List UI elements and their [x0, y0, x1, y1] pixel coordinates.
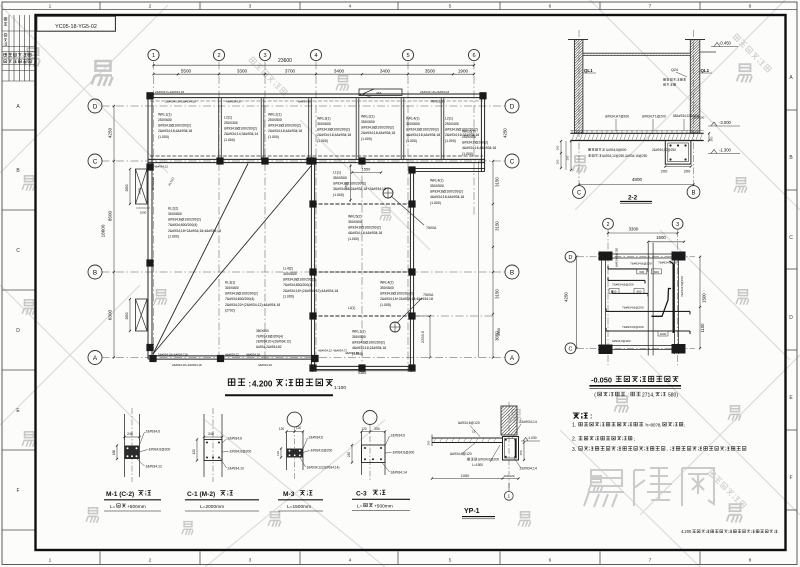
- lintel C-3 wall lines: [362, 432, 386, 476]
- svg-text:7&#934;8@150: 7&#934;8@150: [680, 276, 684, 297]
- wall bottom right block: [311, 366, 413, 369]
- lintel M-3 centerline: [294, 427, 296, 480]
- svg-text:LL4(2): LL4(2): [283, 266, 293, 270]
- lintel M-1 label 2phi6: [139, 430, 160, 447]
- section 2-2 bubble B: [687, 186, 700, 199]
- svg-text:C: C: [510, 158, 515, 165]
- svg-text:4&#934;18;4&#934;18: 4&#934;18;4&#934;18: [430, 195, 464, 199]
- svg-text:(1.000): (1.000): [283, 294, 294, 298]
- svg-text:&#934;2&#934;82: &#934;2&#934;82: [256, 345, 282, 349]
- svg-text:2: 2: [149, 558, 152, 564]
- svg-text:2&#934;18+2&#934;18: 2&#934;18+2&#934;18: [165, 99, 196, 103]
- svg-text:4.200: 4.200: [681, 529, 692, 534]
- svg-text:(1.005): (1.005): [380, 303, 391, 307]
- drain circle upper with leader 7500A: [383, 188, 437, 230]
- slab detail bubble D: [565, 251, 576, 262]
- section 2-2 right wall hatched: [597, 40, 800, 134]
- svg-text:F: F: [16, 488, 19, 494]
- lintel C-3 label 2phi6: [385, 434, 405, 447]
- lintel C-1 label phi6-200: [222, 450, 251, 454]
- svg-text:2&#934;20+(2&#934;12): 2&#934;20+(2&#934;12): [256, 340, 291, 344]
- svg-text:120: 120: [192, 449, 196, 455]
- section 2-2 beam below slab: [665, 141, 691, 165]
- svg-text:300X800: 300X800: [225, 286, 239, 290]
- svg-text:2&#934;20+(2&#934;12);4&#934;1: 2&#934;20+(2&#934;12);4&#934;18: [225, 303, 280, 307]
- grid bubble D left: [88, 99, 102, 113]
- svg-text:600: 600: [612, 290, 617, 294]
- svg-text:2&#934;18+2&#934;18;4&#934;18: 2&#934;18+2&#934;18;4&#934;18: [380, 297, 433, 301]
- section 2-2 wall centerline B: [693, 30, 695, 185]
- svg-text:&#934;8@200: &#934;8@200: [612, 339, 631, 343]
- svg-text:WKL1(1): WKL1(1): [158, 112, 172, 116]
- YP-1 label fujia jin: [467, 445, 500, 467]
- svg-text:6: 6: [472, 53, 475, 59]
- svg-text:2&#934;12@250: 2&#934;12@250: [652, 148, 676, 152]
- svg-text:4&#934;80: 4&#934;80: [345, 351, 359, 355]
- svg-text:L=1500: L=1500: [472, 463, 483, 467]
- svg-text:2&#934;6: 2&#934;6: [391, 434, 406, 438]
- svg-text:L2(1): L2(1): [224, 115, 232, 119]
- section 2-2 elevation -0.450: [711, 41, 738, 47]
- svg-text:2700: 2700: [345, 182, 349, 190]
- wall on line C: [148, 159, 484, 162]
- svg-text:3400: 3400: [334, 68, 345, 73]
- lintel C-3 left dim 240: [347, 444, 353, 464]
- svg-text:3&#934;14: 3&#934;14: [391, 471, 408, 475]
- lintel M-1 left dim 180: [112, 444, 118, 460]
- svg-text:&#934;12@250,&#934;16@250: &#934;12@250,&#934;16@250: [602, 154, 648, 158]
- svg-text:100: 100: [427, 440, 431, 445]
- lintel M-3 bubble: [287, 412, 302, 427]
- svg-text:4&#934;18: 4&#934;18: [246, 352, 260, 356]
- svg-text:7&#934;800/200(4): 7&#934;800/200(4): [283, 283, 312, 287]
- YP-1 column hatched: [472, 406, 575, 435]
- svg-text:1.: 1.: [572, 423, 576, 429]
- svg-text:3150: 3150: [495, 177, 500, 187]
- section 2-2 bottom dimension 4800: [578, 177, 695, 186]
- svg-text::: :: [590, 414, 592, 421]
- svg-text:3&#934;12: 3&#934;12: [146, 465, 163, 469]
- beam annotation KL1-2b: [256, 329, 291, 349]
- big room diagonal brace 2: [153, 164, 248, 355]
- svg-text:7&#934;8@200: 7&#934;8@200: [630, 261, 652, 265]
- section 2-2 QL1 label right: [700, 68, 713, 73]
- svg-text:1950: 1950: [497, 328, 501, 336]
- svg-text:&#934;8@100/200(2): &#934;8@100/200(2): [333, 182, 366, 186]
- wall center vertical: [311, 161, 314, 370]
- svg-text:4&#934;18;4&#934;18: 4&#934;18;4&#934;18: [348, 231, 382, 235]
- svg-text:-1.030: -1.030: [527, 436, 537, 440]
- svg-text:B: B: [510, 269, 514, 276]
- svg-text:&#934;8@100/200(2): &#934;8@100/200(2): [268, 124, 301, 128]
- svg-text:8500: 8500: [108, 210, 113, 221]
- svg-text:250X400: 250X400: [462, 135, 476, 139]
- svg-text:L=2000mm: L=2000mm: [200, 504, 224, 510]
- YP-1 label 2phi14 bottom: [514, 458, 537, 471]
- small rebar texts bottom edge: [158, 349, 359, 368]
- note line 3: [572, 447, 746, 453]
- svg-text:1500: 1500: [656, 235, 666, 240]
- beam annotation KL4: [283, 266, 338, 298]
- svg-text:1: 1: [49, 4, 52, 10]
- svg-text:2&#934;14: 2&#934;14: [520, 420, 537, 424]
- beam annotation room 4: [317, 116, 351, 142]
- svg-text::: :: [249, 380, 252, 389]
- svg-text:4&#934;18: 4&#934;18: [151, 177, 155, 191]
- svg-text:&#934;8@100/200(2): &#934;8@100/200(2): [283, 278, 316, 282]
- svg-text:,: ,: [667, 447, 668, 452]
- svg-text:D: D: [16, 328, 20, 334]
- svg-text::: :: [628, 392, 629, 398]
- svg-text:A: A: [93, 355, 98, 362]
- big room diagonal brace 1: [153, 166, 311, 354]
- svg-text:&#934;6@200: &#934;6@200: [149, 448, 171, 452]
- lintel M-3 beam section: [287, 449, 304, 458]
- svg-text:(2702): (2702): [225, 308, 235, 312]
- grid bubble 5: [402, 49, 413, 60]
- beam annotation room 5: [361, 114, 395, 140]
- beam annotation room 1: [158, 112, 192, 138]
- svg-text:WKL4(1): WKL4(1): [406, 116, 420, 120]
- section 2-2 dims 200 200: [661, 165, 692, 173]
- section 2-2 title: [620, 195, 652, 204]
- svg-text:&#934;8@100/200(2): &#934;8@100/200(2): [168, 218, 201, 222]
- svg-text:5: 5: [406, 53, 409, 59]
- svg-text:(1.000): (1.000): [168, 234, 179, 238]
- svg-text:&#934;8@100/200(2): &#934;8@100/200(2): [361, 126, 394, 130]
- plan grid line C: [102, 160, 506, 162]
- left zone strip letters: [2, 104, 36, 530]
- svg-text:&#934;8@100/200(2): &#934;8@100/200(2): [430, 190, 463, 194]
- svg-text:&#934;8@100/200(2): &#934;8@100/200(2): [352, 341, 385, 345]
- svg-text:2800: 2800: [125, 312, 129, 319]
- beam annotation KL2: [168, 206, 221, 238]
- lintel C-3 label phi6-200: [385, 451, 414, 455]
- band partition walls: [219, 98, 222, 159]
- svg-text:&#934;8@200(2): &#934;8@200(2): [462, 141, 488, 145]
- slab detail dim 1500 top: [647, 235, 685, 243]
- svg-text:D: D: [569, 255, 573, 261]
- svg-text:WKL3(1): WKL3(1): [317, 116, 331, 120]
- lintel M-3 top dims 120 120: [279, 426, 304, 433]
- svg-text:1000: 1000: [140, 211, 147, 215]
- svg-text:WKL5(2): WKL5(2): [348, 214, 362, 218]
- slab detail interior stair wall: [648, 243, 653, 356]
- section 2-2 texts below slab: [588, 148, 676, 158]
- YP-1 centerline: [508, 402, 510, 491]
- svg-text:(1.000): (1.000): [158, 135, 169, 139]
- watermark rotated site text: [733, 34, 772, 73]
- notes heading: [573, 413, 593, 420]
- svg-text:3.: 3.: [572, 447, 576, 453]
- lintel M-3 title: [278, 491, 323, 511]
- svg-text:100: 100: [566, 155, 570, 160]
- buttress dimension 2800: [125, 168, 150, 215]
- svg-text:240: 240: [347, 452, 351, 458]
- slab detail bubble 3: [672, 218, 683, 229]
- svg-text:D: D: [510, 103, 515, 110]
- svg-text:7&#934;8@20: 7&#934;8@20: [658, 260, 678, 264]
- svg-text:120: 120: [276, 451, 280, 456]
- left wall buttress upper: [136, 169, 148, 204]
- lintel C-1 centerline: [212, 408, 214, 482]
- slab detail dim 4250 left: [564, 256, 578, 350]
- YP-1 label 15: [472, 430, 476, 434]
- left wall buttress lower: [136, 299, 148, 331]
- svg-text:350X600: 350X600: [380, 286, 394, 290]
- beam annotation WKL1 block bottom: [352, 329, 386, 355]
- svg-text:6300: 6300: [108, 309, 113, 320]
- svg-text:2&#934;6: 2&#934;6: [146, 430, 161, 434]
- dim 2253.5 rotated: [412, 315, 431, 359]
- drawing number title box: [37, 16, 116, 31]
- svg-text:4385: 4385: [358, 371, 366, 375]
- svg-text:7&#934;8@200: 7&#934;8@200: [622, 306, 644, 310]
- svg-text:120: 120: [361, 427, 367, 431]
- block interior beam dashed 3: [313, 315, 493, 317]
- dim 1950 right of block: [497, 328, 501, 336]
- svg-text:+500mm: +500mm: [127, 504, 146, 510]
- beam annotation room 7: [445, 116, 479, 142]
- svg-text:2000: 2000: [138, 187, 142, 194]
- svg-text:120: 120: [279, 427, 285, 431]
- YP-1 beam section: [503, 437, 519, 461]
- grid bubble C right: [505, 154, 519, 168]
- svg-text:4: 4: [314, 53, 317, 59]
- svg-text:3300: 3300: [629, 226, 639, 231]
- svg-text:1000: 1000: [660, 332, 667, 336]
- svg-text:WKL1(1): WKL1(1): [352, 329, 366, 333]
- svg-text:150: 150: [519, 450, 523, 455]
- svg-text:6: 6: [549, 558, 552, 564]
- beam annotation KL3 big room: [225, 280, 280, 312]
- svg-text:260,120: 260,120: [504, 474, 515, 478]
- svg-text:2800: 2800: [125, 184, 129, 191]
- lintel C-1 beam section: [204, 440, 222, 461]
- svg-text:(1.000): (1.000): [361, 137, 372, 141]
- svg-text:2&#934;10: 2&#934;10: [228, 467, 245, 471]
- svg-text:M-3: M-3: [283, 491, 295, 498]
- lintel C-3 title: [352, 490, 410, 510]
- svg-text:3: 3: [263, 53, 266, 59]
- grid bubble 4: [310, 49, 321, 60]
- svg-text:&#934;6@600: &#934;6@600: [606, 148, 627, 152]
- section 2-2 QL1 label left: [583, 68, 596, 73]
- svg-text:3: 3: [249, 4, 252, 10]
- svg-text:46A: 46A: [376, 92, 383, 96]
- section 2-2 wall centerline C: [578, 30, 580, 185]
- slab detail grid line C: [577, 347, 695, 349]
- svg-text:(1.000): (1.000): [430, 201, 441, 205]
- section 2-2 top slab: [583, 52, 716, 56]
- svg-text:L1(1): L1(1): [333, 170, 341, 174]
- svg-text:;: ;: [634, 436, 635, 441]
- beam annotation room 3: [268, 112, 302, 138]
- dim 4385 block bottom: [312, 370, 413, 375]
- svg-text:6: 6: [549, 4, 552, 10]
- lintel C-1 wall lines: [204, 414, 222, 477]
- lintel C-3 beam section: [362, 445, 386, 463]
- slab detail dim right chain: [699, 256, 707, 350]
- grid bubble A right: [505, 351, 519, 365]
- plan grid line 1: [153, 62, 155, 361]
- lintel C-3 label 3phi14: [382, 463, 407, 475]
- svg-text:&#934;8@100/200(2): &#934;8@100/200(2): [225, 292, 258, 296]
- svg-text:3: 3: [676, 222, 679, 228]
- lintel C-1 title: [185, 491, 259, 511]
- plan grid line 5: [407, 62, 409, 373]
- svg-text:4&#934;20: 4&#934;20: [258, 363, 272, 367]
- section 2-2 bubble C: [573, 186, 586, 199]
- svg-text:;: ;: [684, 422, 685, 427]
- svg-text:7: 7: [649, 558, 652, 564]
- svg-text:18600: 18600: [101, 224, 106, 237]
- svg-text:250X600: 250X600: [158, 118, 172, 122]
- svg-text:600: 600: [639, 270, 644, 274]
- dim 1550 interior: [345, 164, 383, 202]
- band interior beam dashed above C: [150, 155, 483, 157]
- svg-text:2&#934;14: 2&#934;14: [520, 467, 537, 471]
- svg-text:L=: L=: [110, 504, 116, 510]
- right dimension chain: [479, 128, 508, 359]
- signature block: [2, 15, 36, 81]
- svg-text:3500: 3500: [425, 68, 436, 73]
- svg-text:4&#934;16;4&#934;16: 4&#934;16;4&#934;16: [462, 146, 496, 150]
- svg-text:C: C: [569, 347, 573, 353]
- grid bubble 3: [259, 49, 270, 60]
- svg-text:D: D: [789, 315, 793, 321]
- svg-text:-0.450: -0.450: [719, 41, 732, 46]
- grid bubble 1: [148, 49, 159, 60]
- lintel M-3 label phi6-200: [303, 449, 332, 453]
- svg-text:-3.000: -3.000: [719, 120, 732, 125]
- svg-text:2714,: 2714,: [642, 392, 655, 398]
- grid bubble B left: [88, 265, 102, 279]
- svg-text:KL3(1): KL3(1): [225, 280, 235, 284]
- svg-text:4&#934;18: 4&#934;18: [226, 99, 241, 103]
- svg-text:&#934;T1@200: &#934;T1@200: [642, 115, 666, 119]
- section 2-2 note text: [663, 78, 685, 85]
- svg-text:4250: 4250: [564, 292, 569, 302]
- svg-text:&#934;6@200: &#934;6@200: [230, 450, 252, 454]
- lintel C-3 centerline: [369, 425, 371, 481]
- YP-1 left dim 100: [427, 440, 431, 445]
- plan grid line D: [102, 105, 506, 107]
- grid bubble B right: [505, 265, 519, 279]
- lintel C-1 label 2phi6: [222, 437, 242, 444]
- YP-1 slab lines: [432, 435, 503, 447]
- svg-text:KL2(2): KL2(2): [168, 206, 178, 210]
- svg-text:250X500: 250X500: [268, 118, 282, 122]
- svg-text:&#934;6@200: &#934;6@200: [478, 458, 499, 462]
- svg-text:350X500: 350X500: [333, 176, 347, 180]
- svg-text:4&#934;22: 4&#934;22: [318, 349, 332, 353]
- svg-text:&#934;6@120: &#934;6@120: [450, 452, 472, 456]
- svg-text:300: 300: [710, 136, 714, 141]
- band interior beam dashed along D: [150, 100, 483, 102]
- svg-text:2&#934;6: 2&#934;6: [309, 436, 324, 440]
- svg-text:&#934;6@150: &#934;6@150: [615, 247, 619, 267]
- svg-text:+500mm: +500mm: [374, 504, 393, 510]
- svg-text:WKL1(1): WKL1(1): [431, 100, 444, 104]
- svg-text:&#934;8@100/200(2): &#934;8@100/200(2): [380, 292, 413, 296]
- svg-text:QL1: QL1: [701, 68, 710, 73]
- svg-text:QZ4: QZ4: [671, 68, 678, 72]
- plan grid line 6: [473, 62, 475, 216]
- svg-text:2&#934;18;4&#934;18: 2&#934;18;4&#934;18: [317, 133, 351, 137]
- svg-text:8: 8: [749, 558, 752, 564]
- lintel M-1 label 3phi12: [137, 459, 162, 469]
- lintel C-1 label 2phi10: [220, 458, 244, 471]
- svg-text:(1.000): (1.000): [268, 135, 279, 139]
- svg-text:C: C: [789, 235, 793, 241]
- svg-text:F: F: [789, 475, 792, 481]
- svg-text:4&#934;22: 4&#934;22: [154, 165, 168, 169]
- svg-text:2&#934;18+2&#934;18;4&#934;18: 2&#934;18+2&#934;18;4&#934;18: [168, 229, 221, 233]
- svg-text:2&#934;18+2&#934;8: 2&#934;18+2&#934;8: [420, 90, 449, 94]
- beam annotation WKL4 right: [430, 178, 464, 204]
- block intermediate grid line: [361, 161, 363, 372]
- svg-text:350X500: 350X500: [361, 120, 375, 124]
- svg-text:&#934;H7@200: &#934;H7@200: [605, 115, 629, 119]
- section 2-2 rebar texts above slab: [605, 114, 714, 141]
- top dimension total 23600: [152, 58, 475, 67]
- svg-text:2&#934;18+(2&#934;12);4&#934;1: 2&#934;18+(2&#934;12);4&#934;18: [283, 289, 338, 293]
- svg-text:2: 2: [149, 4, 152, 10]
- YP-1 right dim 150: [519, 441, 525, 461]
- block interior beam dashed 2: [313, 271, 412, 273]
- svg-text:250: 250: [374, 427, 380, 431]
- svg-text:(1.000): (1.000): [333, 193, 344, 197]
- slab detail dim 3300: [607, 226, 679, 234]
- beam annotation room 8: [462, 129, 496, 155]
- slab detail walls: [598, 252, 684, 354]
- svg-text:5: 5: [449, 558, 452, 564]
- section 2-2 elevation -3.000: [708, 120, 740, 126]
- svg-text:1: 1: [152, 53, 155, 59]
- svg-text:7&#934;800/200(4): 7&#934;800/200(4): [168, 223, 197, 227]
- svg-text:3300: 3300: [237, 68, 248, 73]
- slab detail bubble C: [565, 343, 576, 354]
- plan grid line 2: [218, 62, 220, 361]
- lintel M-1 centerline: [131, 408, 133, 482]
- svg-text:(1.000): (1.000): [317, 139, 328, 143]
- plan grid line A: [102, 357, 506, 359]
- svg-text:3400: 3400: [380, 68, 391, 73]
- lintel M-1 top dim 240: [123, 432, 140, 440]
- small texts left wall: [151, 165, 175, 192]
- wall top exterior: [148, 89, 484, 98]
- svg-text:2&#934;18;4&#934;18: 2&#934;18;4&#934;18: [361, 131, 395, 135]
- top dimension sub row: [152, 68, 475, 75]
- svg-text:350X500: 350X500: [352, 335, 366, 339]
- buttress dimension lower: [125, 298, 131, 332]
- svg-text:300X600: 300X600: [406, 122, 420, 126]
- svg-text:7&#934;8@200: 7&#934;8@200: [622, 325, 644, 329]
- slab detail grid line 3: [677, 230, 679, 365]
- svg-text:M-1 (C-2): M-1 (C-2): [106, 491, 134, 498]
- section 2-2 left small dims: [556, 140, 573, 171]
- block interior beam dashed 1: [313, 203, 412, 205]
- svg-text:4250: 4250: [503, 128, 508, 138]
- top zone strip: [2, 2, 797, 10]
- svg-text:7&#934;8@/200(4): 7&#934;8@/200(4): [256, 334, 283, 338]
- svg-text:L=: L=: [357, 504, 363, 510]
- lintel M-3 label 2phi6: [303, 436, 323, 450]
- slab detail grid line D: [577, 256, 695, 258]
- slab detail bubble 2: [603, 218, 614, 229]
- svg-text:&#934;8@100/200(2): &#934;8@100/200(2): [158, 124, 191, 128]
